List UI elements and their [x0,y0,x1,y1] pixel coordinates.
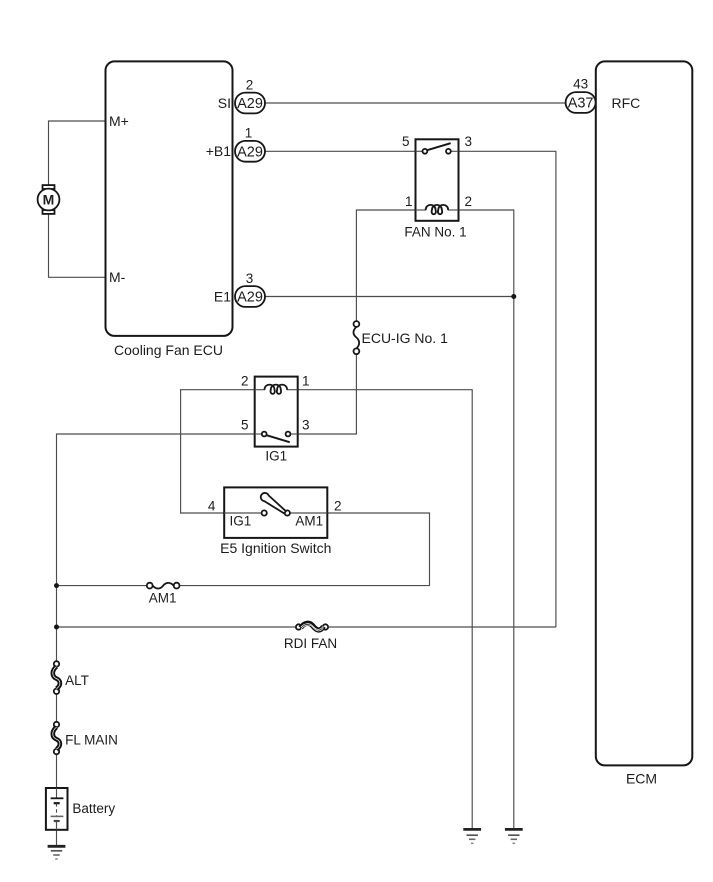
svg-text:RFC: RFC [612,95,641,111]
ground battery [48,846,66,859]
wire ALT to FL MAIN [56,694,58,722]
motor M1 cooling fan motor [38,185,60,214]
svg-text:A29: A29 [237,290,263,306]
relay IG1 [241,373,310,463]
svg-text:A29: A29 [237,145,263,161]
switch key lever [261,493,286,513]
wire FAN No.1 relay pin 3 down to RDI FAN node [459,151,556,627]
svg-text:AM1: AM1 [295,513,323,528]
svg-text:A37: A37 [568,96,594,112]
svg-text:M+: M+ [109,113,129,129]
wire RDI FAN fusible link row [57,626,299,628]
wire FAN No.1 relay pin 1 down to fuse ECU-IG No.1 [356,210,415,321]
relay contact pin 5 [262,432,267,437]
wire M- from motor to Cooling Fan ECU [49,214,105,277]
wire inside switch to contacts [224,512,261,514]
svg-text:1: 1 [405,194,413,209]
battery [46,788,116,830]
wire inside relay to coil [255,389,265,391]
wire inside relay to contacts [416,150,423,152]
wire E1 A29 to node [265,296,514,298]
relay contact pin 3 [286,432,291,437]
switch contact AM1 [285,510,290,515]
svg-text:3: 3 [246,271,254,286]
connector A29 pin 2 (SI) [235,77,265,113]
switch contact IG1 [262,510,267,515]
svg-text:ECM: ECM [626,770,657,786]
fusible link RDI FAN [284,623,337,651]
relay contact pin 3 [446,149,451,154]
battery short plate 2 [54,820,60,822]
wire SI A29 to RFC A37 [265,102,566,104]
wire AM1 fuse to left rail node [57,585,150,587]
wire +B1 A29 to FAN No.1 relay pin 5 [265,150,416,152]
node junction dot E1 wire meets FAN relay pin 2 ground line [511,294,516,299]
svg-text:Cooling Fan ECU: Cooling Fan ECU [114,342,223,358]
wire fuse ECU-IG No.1 to IG1 relay pin 3 [298,354,357,434]
wire inside relay to contacts [255,433,262,435]
svg-text:1: 1 [245,126,253,141]
svg-text:+B1: +B1 [206,143,232,159]
svg-text:5: 5 [241,418,249,433]
svg-text:M-: M- [109,269,126,285]
wire ignition switch AM1 terminal pin 2 down to AM1 fuse [177,513,430,586]
svg-text:E1: E1 [214,288,231,304]
node junction dot AM1 / left rail [54,583,59,588]
connector A29 pin 1 (+B1) [235,126,265,162]
switch E5 Ignition Switch [208,487,342,555]
relay contact pin 5 [423,149,428,154]
svg-text:5: 5 [402,134,410,149]
svg-text:2: 2 [241,373,249,388]
svg-text:SI: SI [218,95,231,111]
battery short plate 1 [54,802,60,804]
connector A37 pin 43 (RFC) [566,76,641,112]
wire IG1 relay pin 5 to AM1 node [57,434,255,586]
svg-text:A29: A29 [237,96,263,112]
svg-text:IG1: IG1 [230,513,252,528]
battery long plate 1 [51,797,64,799]
svg-text:3: 3 [302,418,310,433]
svg-text:Battery: Battery [72,801,115,816]
wire FL MAIN to Battery [56,754,58,788]
ground IG1 relay coil [463,829,481,843]
svg-text:IG1: IG1 [265,448,287,463]
fusible link FL MAIN [53,722,118,755]
wire Battery to ground [56,830,58,846]
wire IG1 relay pin 2 to ignition switch IG1 terminal [181,390,255,513]
svg-text:FAN No. 1: FAN No. 1 [404,224,466,239]
relay coil [265,385,288,394]
fuse ECU-IG No. 1 [353,321,448,354]
svg-text:2: 2 [246,77,254,92]
svg-text:2: 2 [334,498,342,513]
svg-text:1: 1 [302,373,310,388]
svg-text:43: 43 [573,76,588,91]
ECM box [596,61,693,765]
svg-text:2: 2 [465,194,473,209]
wire IG1 relay pin 1 to ground [298,390,473,829]
svg-text:ECU-IG No. 1: ECU-IG No. 1 [362,330,449,346]
wire left rail AM1 node to RDI FAN node to ALT [56,586,58,662]
battery long plate 2 [51,815,64,817]
node junction dot RDI FAN / left rail [54,625,59,630]
fusible link ALT [53,661,89,694]
wire FAN No.1 relay pin 2 down to ground through node E1 [459,210,514,829]
wire M+ from Cooling Fan ECU to motor [49,121,105,186]
relay coil [426,205,449,214]
Cooling Fan ECU box [106,61,233,336]
svg-text:FL MAIN: FL MAIN [65,733,118,748]
relay switch arm open [266,435,289,442]
svg-text:3: 3 [465,134,473,149]
ground E1 / FAN relay pin 2 [505,829,523,843]
svg-text:M: M [43,192,55,208]
battery dashed center [56,803,58,816]
fuse AM1 [147,583,180,606]
connector A29 pin 3 (E1) [235,271,265,307]
svg-text:AM1: AM1 [149,591,177,606]
svg-text:RDI FAN: RDI FAN [284,636,337,651]
relay switch arm [427,143,451,150]
svg-text:ALT: ALT [65,673,89,688]
relay FAN No. 1 [402,134,472,239]
svg-text:E5 Ignition Switch: E5 Ignition Switch [220,540,331,556]
wire inside relay to coil [416,209,427,211]
svg-text:4: 4 [208,498,216,513]
